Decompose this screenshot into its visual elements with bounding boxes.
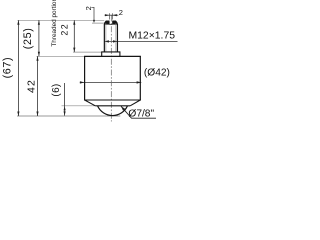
svg-text:M12×1.75: M12×1.75 — [129, 31, 176, 42]
svg-text:42: 42 — [26, 79, 38, 93]
svg-text:2: 2 — [119, 8, 123, 17]
svg-text:(67): (67) — [2, 57, 14, 79]
svg-text:Ø7/8": Ø7/8" — [128, 109, 154, 120]
svg-text:22: 22 — [59, 23, 69, 36]
svg-text:(6): (6) — [51, 83, 62, 96]
svg-text:2: 2 — [84, 6, 93, 10]
svg-text:(25): (25) — [22, 28, 34, 50]
svg-text:(Ø42): (Ø42) — [144, 67, 170, 78]
svg-text:Threaded portion: Threaded portion — [51, 0, 58, 47]
